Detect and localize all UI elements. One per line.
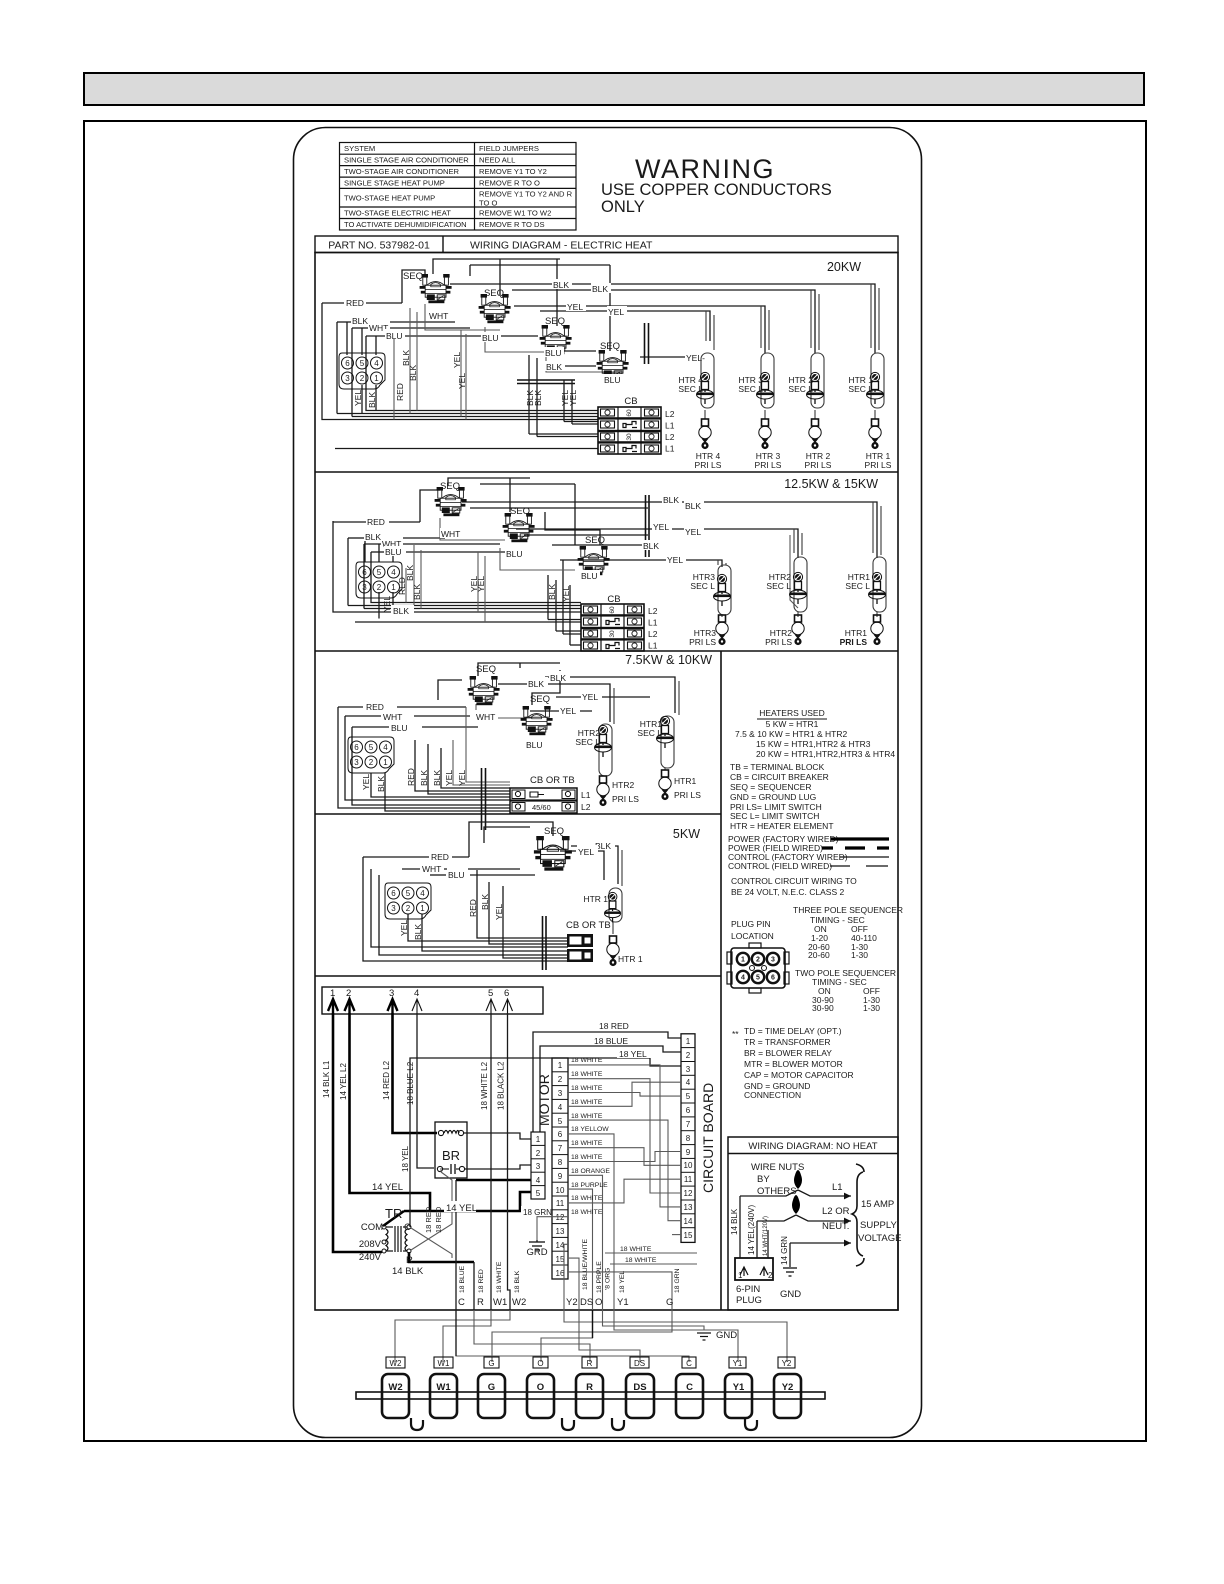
svg-text:7.5KW & 10KW: 7.5KW & 10KW [625, 653, 712, 667]
svg-text:HTR2: HTR2 [612, 780, 634, 790]
svg-text:WHT: WHT [429, 311, 448, 321]
svg-text:7: 7 [558, 1144, 563, 1153]
svg-text:BE 24 VOLT, N.E.C. CLASS 2: BE 24 VOLT, N.E.C. CLASS 2 [731, 887, 844, 897]
svg-text:9: 9 [686, 1148, 691, 1157]
svg-text:WIRE NUTS: WIRE NUTS [751, 1162, 804, 1173]
svg-text:YEL: YEL [653, 522, 669, 532]
svg-text:R: R [406, 1255, 413, 1266]
svg-text:18 YELLOW: 18 YELLOW [571, 1126, 609, 1133]
svg-text:YEL: YEL [685, 527, 701, 537]
svg-text:BLK: BLK [685, 501, 701, 511]
svg-text:BLU: BLU [604, 375, 621, 385]
svg-text:14 YEL: 14 YEL [446, 1203, 477, 1214]
svg-text:PLUG: PLUG [736, 1295, 762, 1306]
svg-text:REMOVE Y1 TO Y2: REMOVE Y1 TO Y2 [479, 167, 547, 176]
svg-text:C: C [686, 1382, 693, 1393]
svg-text:14 YEL(240V): 14 YEL(240V) [747, 1205, 756, 1255]
svg-text:PRI LS: PRI LS [755, 460, 782, 470]
svg-text:YEL: YEL [568, 390, 578, 406]
svg-text:1: 1 [741, 957, 745, 964]
svg-text:YEL: YEL [382, 596, 392, 612]
svg-text:11: 11 [556, 1199, 565, 1208]
svg-text:208V: 208V [359, 1239, 382, 1250]
svg-text:YEL: YEL [567, 302, 583, 312]
svg-text:18 WHITE: 18 WHITE [625, 1257, 657, 1264]
svg-text:RED: RED [395, 383, 405, 401]
svg-text:GND: GND [780, 1289, 801, 1300]
svg-text:REMOVE Y1 TO Y2 AND R: REMOVE Y1 TO Y2 AND R [479, 190, 573, 199]
svg-text:YEL: YEL [457, 373, 467, 389]
svg-text:'8 ORG: '8 ORG [605, 1268, 612, 1290]
svg-text:C: C [686, 1359, 692, 1368]
svg-text:BLU: BLU [482, 333, 499, 343]
svg-text:WIRING DIAGRAM: NO HEAT: WIRING DIAGRAM: NO HEAT [748, 1141, 877, 1152]
svg-text:18 BLUE: 18 BLUE [594, 1036, 628, 1046]
svg-text:18 BLUE: 18 BLUE [459, 1265, 466, 1293]
svg-text:W1: W1 [493, 1297, 507, 1308]
svg-text:BLK: BLK [533, 390, 543, 406]
svg-text:8: 8 [686, 1134, 691, 1143]
svg-text:12.5KW & 15KW: 12.5KW & 15KW [784, 477, 878, 491]
svg-text:BLK: BLK [413, 924, 423, 940]
svg-text:G: G [488, 1359, 494, 1368]
svg-text:YEL: YEL [353, 390, 363, 406]
svg-text:SEC L: SEC L [788, 384, 813, 394]
svg-text:SEC L: SEC L [738, 384, 763, 394]
svg-text:SEC L: SEC L [848, 384, 873, 394]
svg-text:LOCATION: LOCATION [731, 931, 774, 941]
svg-text:18 BLK: 18 BLK [514, 1270, 521, 1293]
svg-text:6: 6 [504, 988, 509, 999]
svg-text:RED: RED [367, 517, 385, 527]
svg-text:14 BLK: 14 BLK [392, 1266, 424, 1277]
svg-text:YEL: YEL [561, 586, 571, 602]
svg-text:1-30: 1-30 [851, 950, 868, 960]
svg-text:18 BLACK L2: 18 BLACK L2 [497, 1061, 506, 1110]
svg-text:18 WHITE: 18 WHITE [620, 1246, 652, 1253]
svg-text:SEC L: SEC L [690, 581, 715, 591]
svg-text:10: 10 [556, 1186, 565, 1195]
svg-text:SEQ: SEQ [545, 316, 565, 327]
svg-text:O: O [595, 1297, 602, 1308]
svg-text:5: 5 [536, 1189, 541, 1198]
svg-text:18 BLUE/WHITE: 18 BLUE/WHITE [582, 1239, 589, 1290]
svg-text:4: 4 [536, 1176, 541, 1185]
svg-text:18 WHITE: 18 WHITE [571, 1085, 603, 1092]
svg-text:CONNECTION: CONNECTION [744, 1090, 801, 1100]
svg-text:O: O [537, 1382, 544, 1393]
svg-text:**: ** [732, 1029, 739, 1039]
svg-text:HTR 1: HTR 1 [583, 894, 608, 904]
svg-text:VOLTAGE: VOLTAGE [858, 1233, 901, 1244]
svg-text:COM: COM [361, 1222, 383, 1233]
svg-text:FIELD JUMPERS: FIELD JUMPERS [479, 144, 539, 153]
svg-text:5: 5 [686, 1092, 691, 1101]
svg-text:PRI LS: PRI LS [840, 637, 868, 647]
svg-text:9: 9 [558, 1172, 563, 1181]
svg-text:4: 4 [741, 975, 745, 982]
svg-text:14 WHT(120V): 14 WHT(120V) [763, 1216, 769, 1256]
svg-text:YEL: YEL [582, 692, 598, 702]
svg-text:TWO-STAGE AIR CONDITIONER: TWO-STAGE AIR CONDITIONER [344, 167, 460, 176]
svg-text:HTR = HEATER ELEMENT: HTR = HEATER ELEMENT [730, 821, 834, 831]
svg-text:L1: L1 [665, 444, 675, 454]
svg-text:WARNING: WARNING [635, 154, 775, 184]
svg-text:BLK: BLK [528, 679, 544, 689]
svg-text:PRI LS: PRI LS [765, 637, 792, 647]
svg-text:18 WHITE: 18 WHITE [571, 1209, 603, 1216]
svg-text:RED: RED [431, 852, 449, 862]
svg-text:G: G [488, 1382, 495, 1393]
svg-text:CB: CB [624, 396, 637, 407]
svg-text:BLK: BLK [553, 280, 569, 290]
svg-text:SEQ = SEQUENCER: SEQ = SEQUENCER [730, 782, 811, 792]
svg-text:RED: RED [468, 899, 478, 917]
svg-text:O: O [537, 1359, 543, 1368]
svg-text:SEC L: SEC L [845, 581, 870, 591]
svg-text:6: 6 [558, 1130, 563, 1139]
svg-text:L2: L2 [665, 409, 675, 419]
svg-text:CB OR TB: CB OR TB [566, 920, 611, 931]
svg-text:WHT: WHT [441, 529, 460, 539]
svg-text:RED: RED [346, 298, 364, 308]
svg-text:5 KW = HTR1: 5 KW = HTR1 [766, 719, 819, 729]
svg-text:1: 1 [558, 1061, 563, 1070]
svg-text:SEQ: SEQ [510, 506, 530, 517]
svg-text:CB = CIRCUIT BREAKER: CB = CIRCUIT BREAKER [730, 772, 829, 782]
svg-text:BLK: BLK [367, 392, 377, 408]
svg-text:18 WHITE: 18 WHITE [571, 1099, 603, 1106]
svg-text:TB = TERMINAL BLOCK: TB = TERMINAL BLOCK [730, 762, 825, 772]
svg-text:18 WHITE: 18 WHITE [571, 1195, 603, 1202]
svg-text:Y1: Y1 [733, 1382, 745, 1393]
svg-text:WHT: WHT [383, 712, 402, 722]
svg-text:CIRCUIT BOARD: CIRCUIT BOARD [700, 1083, 716, 1193]
svg-text:Y1: Y1 [733, 1359, 743, 1368]
svg-text:YEL: YEL [608, 307, 624, 317]
svg-text:NEED ALL: NEED ALL [479, 156, 515, 165]
svg-text:240V: 240V [359, 1252, 382, 1263]
svg-text:2: 2 [768, 1271, 773, 1280]
svg-text:18 WHITE: 18 WHITE [571, 1071, 603, 1078]
svg-text:G: G [666, 1297, 673, 1308]
svg-text:WHT: WHT [476, 712, 495, 722]
svg-text:YEL-: YEL- [686, 353, 705, 363]
svg-text:SEC L: SEC L [678, 384, 703, 394]
svg-text:C: C [458, 1297, 465, 1308]
svg-text:BLK: BLK [546, 362, 562, 372]
svg-text:YEL: YEL [494, 904, 504, 920]
svg-text:2: 2 [346, 988, 351, 999]
svg-text:BLK: BLK [643, 541, 659, 551]
svg-text:13: 13 [556, 1227, 565, 1236]
svg-text:15: 15 [684, 1231, 693, 1240]
svg-text:BLK: BLK [393, 606, 409, 616]
svg-text:DS: DS [634, 1359, 645, 1368]
svg-text:GRD: GRD [526, 1247, 547, 1258]
svg-text:14 BLK L1: 14 BLK L1 [322, 1060, 331, 1098]
svg-text:18 WHITE: 18 WHITE [571, 1113, 603, 1120]
svg-text:ONLY: ONLY [601, 198, 645, 216]
svg-text:PLUG PIN: PLUG PIN [731, 919, 771, 929]
svg-text:SEQ: SEQ [484, 288, 504, 299]
svg-text:11: 11 [684, 1175, 693, 1184]
svg-text:BLK: BLK [365, 532, 381, 542]
svg-text:18 RED: 18 RED [599, 1021, 629, 1031]
svg-text:18 WHITE L2: 18 WHITE L2 [480, 1061, 489, 1110]
svg-text:YEL: YEL [560, 706, 576, 716]
svg-text:YEL: YEL [457, 770, 467, 786]
svg-text:R: R [477, 1297, 484, 1308]
svg-text:L1: L1 [648, 641, 658, 651]
svg-text:HTR1: HTR1 [674, 776, 696, 786]
svg-text:BLK: BLK [412, 584, 422, 600]
svg-text:BLU: BLU [581, 571, 598, 581]
svg-text:14: 14 [684, 1217, 693, 1226]
svg-text:18 ORANGE: 18 ORANGE [571, 1168, 610, 1175]
svg-text:HTR 1: HTR 1 [618, 954, 643, 964]
svg-text:6-PIN: 6-PIN [736, 1284, 760, 1295]
svg-text:18 YEL: 18 YEL [401, 1145, 410, 1172]
svg-text:2: 2 [558, 1075, 563, 1084]
svg-text:YEL: YEL [578, 847, 594, 857]
svg-text:SEQ: SEQ [544, 826, 564, 837]
svg-text:Y2: Y2 [782, 1382, 794, 1393]
svg-text:14 BLK: 14 BLK [730, 1208, 739, 1235]
svg-text:L2: L2 [665, 432, 675, 442]
svg-text:L1: L1 [648, 618, 658, 628]
svg-text:10: 10 [684, 1161, 693, 1170]
svg-text:2: 2 [756, 957, 760, 964]
svg-text:5: 5 [558, 1117, 563, 1126]
svg-text:BLU: BLU [448, 870, 465, 880]
svg-text:BLK: BLK [550, 673, 566, 683]
svg-text:4: 4 [414, 988, 419, 999]
svg-text:TD = TIME DELAY (OPT.): TD = TIME DELAY (OPT.) [744, 1026, 842, 1036]
svg-text:BLK: BLK [401, 350, 411, 366]
svg-text:BLK: BLK [432, 770, 442, 786]
svg-text:18 RED: 18 RED [424, 1206, 433, 1233]
svg-text:18 WHITE: 18 WHITE [571, 1140, 603, 1147]
svg-text:6: 6 [686, 1106, 691, 1115]
svg-text:12: 12 [556, 1213, 565, 1222]
svg-text:TR = TRANSFORMER: TR = TRANSFORMER [744, 1037, 831, 1047]
svg-text:R: R [587, 1359, 593, 1368]
svg-text:6: 6 [771, 975, 775, 982]
svg-text:PRI LS: PRI LS [865, 460, 892, 470]
svg-text:YEL: YEL [399, 920, 409, 936]
svg-text:L1: L1 [581, 790, 591, 800]
svg-text:3: 3 [771, 957, 775, 964]
svg-text:SEQ: SEQ [476, 664, 496, 675]
svg-text:SINGLE STAGE AIR CONDITIONER: SINGLE STAGE AIR CONDITIONER [344, 156, 469, 165]
svg-text:BLU: BLU [506, 549, 523, 559]
svg-text:TWO-STAGE HEAT PUMP: TWO-STAGE HEAT PUMP [344, 194, 435, 203]
svg-text:DS: DS [580, 1297, 593, 1308]
svg-text:WHT: WHT [422, 864, 441, 874]
svg-text:18 PRPLE: 18 PRPLE [596, 1261, 603, 1293]
svg-text:BLK: BLK [376, 776, 386, 792]
svg-text:W1: W1 [438, 1359, 451, 1368]
svg-text:1-30: 1-30 [863, 1003, 880, 1013]
svg-text:L2: L2 [581, 802, 591, 812]
svg-text:BLK: BLK [480, 894, 490, 910]
svg-text:GND = GROUND LUG: GND = GROUND LUG [730, 792, 816, 802]
svg-text:SEQ: SEQ [585, 535, 605, 546]
svg-text:SINGLE STAGE HEAT PUMP: SINGLE STAGE HEAT PUMP [344, 178, 445, 187]
svg-text:7.5 & 10 KW = HTR1 & HTR2: 7.5 & 10 KW = HTR1 & HTR2 [735, 729, 847, 739]
svg-text:18 YEL: 18 YEL [619, 1271, 626, 1293]
svg-text:14 GRN: 14 GRN [780, 1236, 789, 1265]
svg-text:W1: W1 [436, 1382, 451, 1393]
svg-text:HEATERS USED: HEATERS USED [759, 708, 825, 718]
svg-text:BLU: BLU [391, 723, 408, 733]
svg-text:15 KW = HTR1,HTR2 & HTR3: 15 KW = HTR1,HTR2 & HTR3 [756, 739, 871, 749]
svg-text:2: 2 [686, 1051, 691, 1060]
svg-text:TR: TR [385, 1206, 402, 1221]
svg-text:5: 5 [756, 975, 760, 982]
svg-text:PRI LS: PRI LS [689, 637, 716, 647]
svg-text:TO ACTIVATE DEHUMIDIFICATION: TO ACTIVATE DEHUMIDIFICATION [344, 220, 467, 229]
svg-text:YEL: YEL [444, 770, 454, 786]
svg-text:PART NO. 537982-01: PART NO. 537982-01 [328, 240, 430, 252]
svg-text:BR = BLOWER RELAY: BR = BLOWER RELAY [744, 1048, 832, 1058]
svg-text:BLK: BLK [352, 316, 368, 326]
svg-text:3: 3 [686, 1065, 691, 1074]
svg-text:L1: L1 [832, 1182, 843, 1193]
svg-text:SEC L= LIMIT SWITCH: SEC L= LIMIT SWITCH [730, 811, 819, 821]
svg-text:15 AMP: 15 AMP [861, 1199, 894, 1210]
svg-text:BR: BR [442, 1148, 460, 1163]
svg-text:BLU: BLU [386, 331, 403, 341]
svg-text:NEUT.: NEUT. [822, 1221, 849, 1232]
svg-text:PRI LS: PRI LS [695, 460, 722, 470]
svg-text:14 YEL: 14 YEL [372, 1182, 403, 1193]
svg-text:20 KW = HTR1,HTR2,HTR3 & HTR4: 20 KW = HTR1,HTR2,HTR3 & HTR4 [756, 749, 895, 759]
svg-text:REMOVE R TO DS: REMOVE R TO DS [479, 220, 545, 229]
svg-text:YEL: YEL [667, 555, 683, 565]
svg-text:BLU: BLU [526, 740, 543, 750]
svg-text:CONTROL (FIELD WIRED): CONTROL (FIELD WIRED) [728, 861, 832, 871]
svg-text:18 RED: 18 RED [478, 1269, 485, 1293]
svg-text:BLK: BLK [408, 365, 418, 381]
svg-text:13: 13 [684, 1203, 693, 1212]
svg-text:18 WHITE: 18 WHITE [571, 1154, 603, 1161]
svg-text:45/60: 45/60 [532, 803, 551, 812]
svg-text:18 GRN: 18 GRN [674, 1268, 681, 1293]
svg-text:18 PURPLE: 18 PURPLE [571, 1182, 608, 1189]
svg-text:3: 3 [536, 1162, 541, 1171]
svg-text:20-60: 20-60 [808, 950, 830, 960]
svg-text:REMOVE R TO O: REMOVE R TO O [479, 178, 540, 187]
svg-text:Y1: Y1 [617, 1297, 629, 1308]
svg-text:BLU: BLU [385, 547, 402, 557]
svg-text:SYSTEM: SYSTEM [344, 144, 375, 153]
svg-text:YEL: YEL [361, 774, 371, 790]
svg-text:PRI LS: PRI LS [612, 794, 639, 804]
svg-text:1: 1 [686, 1037, 691, 1046]
svg-text:R: R [586, 1382, 593, 1393]
svg-text:SEQ: SEQ [403, 271, 423, 282]
svg-text:W2: W2 [512, 1297, 526, 1308]
svg-text:RED: RED [366, 702, 384, 712]
svg-text:TWO-STAGE ELECTRIC HEAT: TWO-STAGE ELECTRIC HEAT [344, 209, 451, 218]
svg-text:1: 1 [738, 1271, 743, 1280]
svg-text:20KW: 20KW [827, 260, 861, 274]
svg-text:5: 5 [488, 988, 493, 999]
svg-text:8: 8 [558, 1158, 563, 1167]
svg-text:GND: GND [716, 1330, 737, 1341]
svg-text:3: 3 [389, 988, 394, 999]
svg-text:SEC L: SEC L [766, 581, 791, 591]
svg-text:WIRING DIAGRAM - ELECTRIC HEAT: WIRING DIAGRAM - ELECTRIC HEAT [470, 240, 653, 252]
svg-text:18 WHITE: 18 WHITE [571, 1057, 603, 1064]
svg-text:2: 2 [536, 1149, 541, 1158]
svg-text:PRI LS: PRI LS [674, 790, 701, 800]
svg-text:BLK: BLK [592, 284, 608, 294]
svg-text:MOTOR: MOTOR [536, 1074, 552, 1126]
svg-text:L2 OR: L2 OR [822, 1206, 850, 1217]
svg-text:CB OR TB: CB OR TB [530, 775, 575, 786]
svg-text:BLK: BLK [547, 584, 557, 600]
svg-text:THREE POLE SEQUENCER: THREE POLE SEQUENCER [793, 905, 903, 915]
svg-text:SEQ: SEQ [440, 481, 460, 492]
svg-text:CONTROL CIRCUIT WIRING TO: CONTROL CIRCUIT WIRING TO [731, 876, 857, 886]
svg-text:USE COPPER CONDUCTORS: USE COPPER CONDUCTORS [601, 181, 832, 199]
svg-text:4: 4 [686, 1078, 691, 1087]
svg-text:7: 7 [686, 1120, 691, 1129]
svg-text:SEC L: SEC L [637, 728, 662, 738]
svg-text:12: 12 [684, 1189, 693, 1198]
svg-text:SUPPLY: SUPPLY [860, 1220, 897, 1231]
svg-text:18 GRN: 18 GRN [523, 1208, 552, 1217]
svg-text:18 YEL: 18 YEL [619, 1049, 647, 1059]
svg-text:1: 1 [536, 1135, 541, 1144]
svg-text:PRI LS: PRI LS [805, 460, 832, 470]
svg-text:W2: W2 [388, 1382, 402, 1393]
svg-text:BY: BY [757, 1174, 770, 1185]
svg-text:Y2: Y2 [782, 1359, 792, 1368]
svg-text:RED: RED [406, 768, 416, 786]
svg-text:18 WHITE: 18 WHITE [496, 1261, 503, 1293]
svg-text:3: 3 [558, 1089, 563, 1098]
svg-text:14 RED L2: 14 RED L2 [382, 1060, 391, 1100]
svg-text:YEL: YEL [452, 352, 462, 368]
svg-text:BLK: BLK [419, 770, 429, 786]
svg-text:5KW: 5KW [673, 827, 700, 841]
svg-text:30-90: 30-90 [812, 1003, 834, 1013]
svg-text:MTR = BLOWER MOTOR: MTR = BLOWER MOTOR [744, 1059, 843, 1069]
svg-text:DS: DS [633, 1382, 646, 1393]
svg-text:L2: L2 [648, 629, 658, 639]
svg-text:CAP = MOTOR CAPACITOR: CAP = MOTOR CAPACITOR [744, 1070, 854, 1080]
svg-text:W2: W2 [390, 1359, 403, 1368]
svg-text:BLK: BLK [405, 565, 415, 581]
svg-text:REMOVE W1 TO W2: REMOVE W1 TO W2 [479, 209, 551, 218]
svg-text:4: 4 [558, 1103, 563, 1112]
svg-text:SEC L: SEC L [575, 737, 600, 747]
svg-text:SEQ: SEQ [530, 694, 550, 705]
svg-text:L1: L1 [665, 421, 675, 431]
svg-text:Y2: Y2 [566, 1297, 578, 1308]
svg-text:SEQ: SEQ [600, 341, 620, 352]
svg-text:TO O: TO O [479, 199, 498, 208]
svg-text:14 YEL L2: 14 YEL L2 [339, 1063, 348, 1100]
svg-text:L2: L2 [648, 606, 658, 616]
svg-text:YEL: YEL [476, 576, 486, 592]
svg-text:BLU: BLU [545, 348, 562, 358]
svg-text:18 RED: 18 RED [434, 1206, 443, 1233]
